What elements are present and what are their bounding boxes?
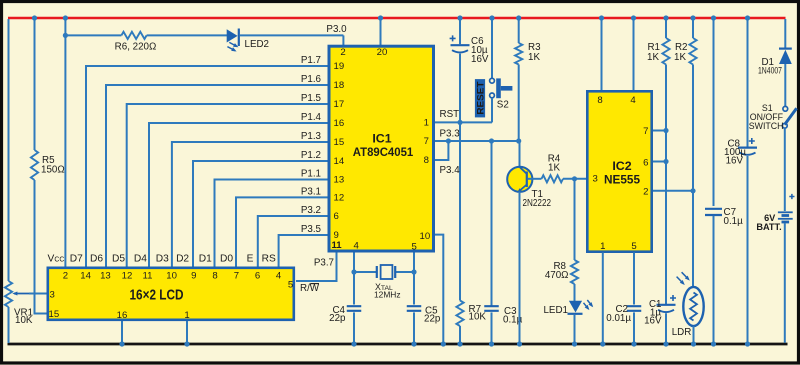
junction — [489, 15, 494, 20]
svg-text:16: 16 — [334, 118, 345, 129]
wire — [354, 271, 376, 273]
svg-text:0.1µ: 0.1µ — [724, 216, 744, 227]
LED LED2 — [227, 29, 269, 52]
wire — [653, 130, 666, 132]
junction — [663, 128, 668, 133]
svg-text:22p: 22p — [424, 313, 441, 324]
resistor R7 10K — [456, 123, 486, 326]
junction — [631, 15, 636, 20]
junction — [378, 15, 383, 20]
svg-text:1K: 1K — [548, 163, 560, 174]
svg-text:15: 15 — [49, 309, 60, 320]
wire — [518, 65, 520, 142]
wire — [784, 19, 786, 48]
op-amp U1: microcontroller IC1 AT89C4051 body — [329, 46, 434, 251]
svg-text:16: 16 — [117, 310, 128, 321]
junction — [184, 341, 189, 346]
wire — [713, 19, 715, 206]
junction — [516, 15, 521, 20]
svg-text:10K: 10K — [469, 312, 487, 323]
capacitor C7 0.1u — [705, 207, 743, 227]
wire — [601, 19, 603, 91]
junction — [351, 269, 356, 274]
junction — [572, 341, 577, 346]
capacitor C6 10u 16V — [450, 35, 489, 65]
junction — [457, 120, 462, 125]
wire — [633, 253, 635, 305]
resistor R8 470&#937; — [545, 260, 578, 284]
svg-text:5: 5 — [288, 280, 293, 291]
svg-text:2N2222: 2N2222 — [523, 198, 552, 209]
svg-text:150Ω: 150Ω — [41, 165, 65, 176]
svg-text:1: 1 — [600, 241, 605, 252]
wire — [459, 326, 461, 343]
svg-text:BATT.: BATT. — [756, 222, 781, 232]
wire — [29, 293, 48, 295]
svg-text:10: 10 — [420, 231, 431, 242]
wire P1.3 — [172, 142, 328, 267]
wire P3.5 — [279, 235, 328, 267]
svg-text:IC1: IC1 — [372, 132, 391, 146]
Vcc rail (red) — [8, 17, 786, 19]
junction — [489, 138, 494, 143]
svg-text:5: 5 — [631, 241, 636, 252]
svg-text:17: 17 — [334, 99, 345, 110]
wire P3.3 — [435, 140, 519, 142]
svg-text:9: 9 — [191, 271, 196, 282]
svg-text:20: 20 — [377, 47, 388, 58]
wire — [574, 284, 576, 301]
resistor R1 1K — [647, 38, 670, 65]
capacitor C4 22p — [329, 305, 361, 324]
wire — [64, 19, 66, 267]
wire — [602, 253, 604, 344]
junction — [711, 15, 716, 20]
junction — [517, 341, 522, 346]
resistor R3 1K — [515, 42, 541, 65]
svg-text:15: 15 — [334, 137, 345, 148]
crystal XTAL 12MHz — [374, 265, 401, 300]
svg-text:D5: D5 — [112, 253, 125, 264]
wire — [459, 54, 461, 122]
junction — [631, 341, 636, 346]
svg-text:16×2 LCD: 16×2 LCD — [130, 288, 184, 304]
svg-text:P1.3: P1.3 — [301, 131, 322, 142]
svg-text:16V: 16V — [644, 316, 662, 327]
svg-text:4: 4 — [630, 95, 636, 106]
svg-text:P1.4: P1.4 — [301, 112, 322, 123]
wire P3.4 — [435, 141, 448, 160]
svg-text:1: 1 — [424, 117, 429, 128]
switch S1 ON/OFF — [749, 103, 797, 131]
junction — [599, 15, 604, 20]
wire — [692, 65, 694, 288]
wire — [574, 315, 576, 343]
wire — [747, 19, 749, 147]
junction — [351, 341, 356, 346]
wire — [784, 223, 786, 343]
junction — [446, 138, 451, 143]
svg-text:7: 7 — [643, 126, 648, 137]
wire — [784, 64, 786, 106]
junction — [663, 341, 668, 346]
svg-text:P3.1: P3.1 — [301, 187, 321, 198]
resistor R2 1K — [674, 38, 697, 65]
svg-text:1K: 1K — [674, 52, 686, 63]
svg-text:3: 3 — [593, 173, 598, 184]
svg-text:D2: D2 — [176, 253, 189, 264]
wire — [413, 253, 415, 305]
wire — [713, 216, 715, 343]
junction — [691, 341, 696, 346]
svg-text:LED2: LED2 — [245, 39, 270, 50]
svg-text:NE555: NE555 — [604, 173, 640, 187]
wire — [35, 180, 48, 314]
wire RST — [435, 121, 492, 123]
LCD module 16x2 body — [48, 268, 294, 320]
svg-text:D1: D1 — [199, 253, 212, 264]
node R/W — [300, 283, 320, 294]
wire — [653, 161, 666, 163]
junction — [711, 341, 716, 346]
svg-text:16V: 16V — [726, 156, 744, 167]
svg-text:R6, 220Ω: R6, 220Ω — [115, 42, 157, 53]
svg-text:470Ω: 470Ω — [545, 270, 569, 281]
svg-text:D6: D6 — [90, 253, 103, 264]
svg-text:13: 13 — [334, 175, 345, 186]
wire — [574, 179, 576, 260]
wire P1.1 — [215, 180, 328, 267]
svg-text:16V: 16V — [471, 54, 489, 65]
wire — [353, 253, 355, 305]
svg-text:18: 18 — [334, 80, 345, 91]
wire P1.6 — [106, 85, 328, 267]
svg-text:P1.1: P1.1 — [301, 169, 321, 180]
svg-text:8: 8 — [212, 271, 217, 282]
svg-text:D7: D7 — [70, 253, 83, 264]
junction — [441, 341, 446, 346]
wire — [240, 34, 344, 36]
svg-text:AT89C4051: AT89C4051 — [353, 145, 414, 159]
svg-text:SWITCH: SWITCH — [749, 121, 784, 131]
potentiometer VR1 10K — [5, 281, 33, 326]
wire — [665, 19, 667, 38]
svg-text:P3.7: P3.7 — [314, 258, 334, 269]
svg-text:12: 12 — [122, 271, 133, 282]
junction — [489, 341, 494, 346]
svg-text:D0: D0 — [220, 253, 233, 264]
junction — [600, 341, 605, 346]
junction — [63, 15, 68, 20]
wire P3.1 — [236, 197, 328, 266]
op-amp U2: timer IC2 NE555 body — [587, 91, 651, 251]
wire — [518, 19, 520, 43]
LDR — [672, 272, 704, 338]
svg-text:11: 11 — [332, 240, 343, 251]
junction — [411, 341, 416, 346]
svg-text:1K: 1K — [528, 52, 540, 63]
svg-text:1N4007: 1N4007 — [758, 65, 782, 75]
wire — [413, 312, 415, 343]
resistor R6 220&#937; — [115, 32, 157, 53]
junction — [516, 138, 521, 143]
wire — [693, 326, 695, 343]
wire — [380, 19, 382, 46]
wire — [121, 321, 123, 343]
battery 6V BATT — [756, 194, 794, 232]
wire P1.2 — [193, 161, 328, 267]
wire — [528, 178, 542, 180]
wire — [519, 141, 521, 167]
svg-text:0.01µ: 0.01µ — [606, 313, 631, 324]
svg-text:14: 14 — [80, 271, 91, 282]
svg-text:2: 2 — [63, 271, 68, 282]
wire — [342, 35, 344, 46]
wire — [186, 321, 188, 343]
wire — [8, 307, 10, 343]
wire P3.7 — [296, 253, 337, 282]
wire — [633, 19, 635, 91]
wire — [396, 271, 414, 273]
svg-text:E: E — [247, 253, 254, 264]
ground rail — [8, 343, 788, 346]
junction — [457, 15, 462, 20]
svg-text:12MHz: 12MHz — [374, 290, 401, 300]
junction — [411, 269, 416, 274]
svg-text:P3.5: P3.5 — [301, 224, 322, 235]
svg-text:4: 4 — [354, 241, 360, 252]
wire — [435, 235, 443, 343]
svg-text:D3: D3 — [156, 253, 169, 264]
junction — [690, 15, 695, 20]
svg-text:D4: D4 — [134, 253, 147, 264]
svg-text:14: 14 — [334, 156, 345, 167]
svg-text:19: 19 — [334, 61, 345, 72]
svg-text:RS: RS — [262, 253, 276, 264]
svg-text:7: 7 — [234, 271, 239, 282]
svg-text:P1.6: P1.6 — [301, 74, 322, 85]
svg-text:IC2: IC2 — [612, 159, 631, 173]
svg-text:RST: RST — [440, 109, 460, 120]
wire — [563, 178, 586, 180]
wire — [692, 19, 694, 38]
wire P1.7 — [86, 66, 328, 267]
svg-text:8: 8 — [424, 155, 429, 166]
diode D1 1N4007 — [758, 49, 792, 76]
capacitor C3 0.1u — [484, 141, 522, 326]
wire — [147, 34, 227, 36]
wire — [747, 156, 749, 343]
wire — [353, 312, 355, 343]
svg-text:P3.4: P3.4 — [440, 165, 461, 176]
wire P1.4 — [149, 123, 328, 267]
capacitor C2 0.01u — [606, 304, 641, 324]
transistor T1 2N2222 — [507, 167, 551, 343]
svg-text:LED1: LED1 — [543, 305, 568, 316]
wire — [633, 312, 635, 343]
svg-text:6: 6 — [255, 271, 260, 282]
junction — [63, 33, 68, 38]
svg-text:S2: S2 — [497, 100, 509, 111]
svg-text:1K: 1K — [647, 52, 659, 63]
svg-text:6: 6 — [643, 157, 648, 168]
wire — [8, 19, 10, 281]
wire — [665, 65, 667, 305]
svg-text:6: 6 — [334, 211, 339, 222]
svg-text:LDR: LDR — [672, 327, 692, 338]
junction — [457, 341, 462, 346]
svg-text:3: 3 — [50, 289, 55, 300]
resistor R5 150&#937; — [31, 150, 65, 180]
wire — [34, 19, 36, 150]
junction — [745, 341, 750, 346]
capacitor C5 22p — [407, 306, 441, 325]
label RESET — [475, 79, 485, 117]
svg-text:2: 2 — [643, 187, 648, 198]
junction — [32, 15, 37, 20]
svg-text:P3.2: P3.2 — [301, 205, 321, 216]
svg-text:11: 11 — [143, 271, 153, 282]
wire — [784, 128, 786, 211]
svg-text:4: 4 — [276, 271, 282, 282]
svg-text:12: 12 — [334, 192, 345, 203]
wire — [459, 19, 461, 44]
svg-text:8: 8 — [597, 95, 602, 106]
wire — [491, 19, 493, 78]
svg-text:7: 7 — [424, 136, 429, 147]
svg-text:P1.2: P1.2 — [301, 150, 321, 161]
svg-text:5: 5 — [412, 242, 417, 253]
junction — [119, 341, 124, 346]
wire P3.2 — [258, 216, 328, 267]
svg-text:P1.5: P1.5 — [301, 93, 322, 104]
capacitor C8 100u 16V — [724, 138, 757, 167]
svg-text:10: 10 — [166, 271, 177, 282]
junction — [663, 15, 668, 20]
LED LED1 — [543, 300, 593, 316]
svg-text:R/W: R/W — [300, 283, 320, 294]
svg-text:P3.0: P3.0 — [326, 24, 347, 35]
svg-text:22p: 22p — [329, 313, 346, 324]
svg-text:2: 2 — [340, 47, 345, 58]
wire — [491, 98, 493, 123]
svg-text:1: 1 — [184, 310, 189, 321]
wire — [491, 312, 493, 343]
junction — [663, 159, 668, 164]
svg-text:P1.7: P1.7 — [301, 55, 321, 66]
wire — [665, 313, 667, 343]
wire P1.5 — [127, 104, 328, 267]
svg-text:RESET: RESET — [475, 81, 485, 115]
push switch S2 — [490, 78, 513, 110]
junction — [745, 15, 750, 20]
wire — [653, 190, 693, 192]
wire — [65, 34, 121, 36]
junction — [690, 188, 695, 193]
junction — [572, 176, 577, 181]
svg-text:P3.3: P3.3 — [440, 129, 461, 140]
svg-text:10K: 10K — [15, 315, 33, 326]
svg-text:13: 13 — [100, 271, 111, 282]
capacitor C1 1u 16V — [644, 295, 676, 327]
resistor R4 1K — [542, 154, 564, 183]
